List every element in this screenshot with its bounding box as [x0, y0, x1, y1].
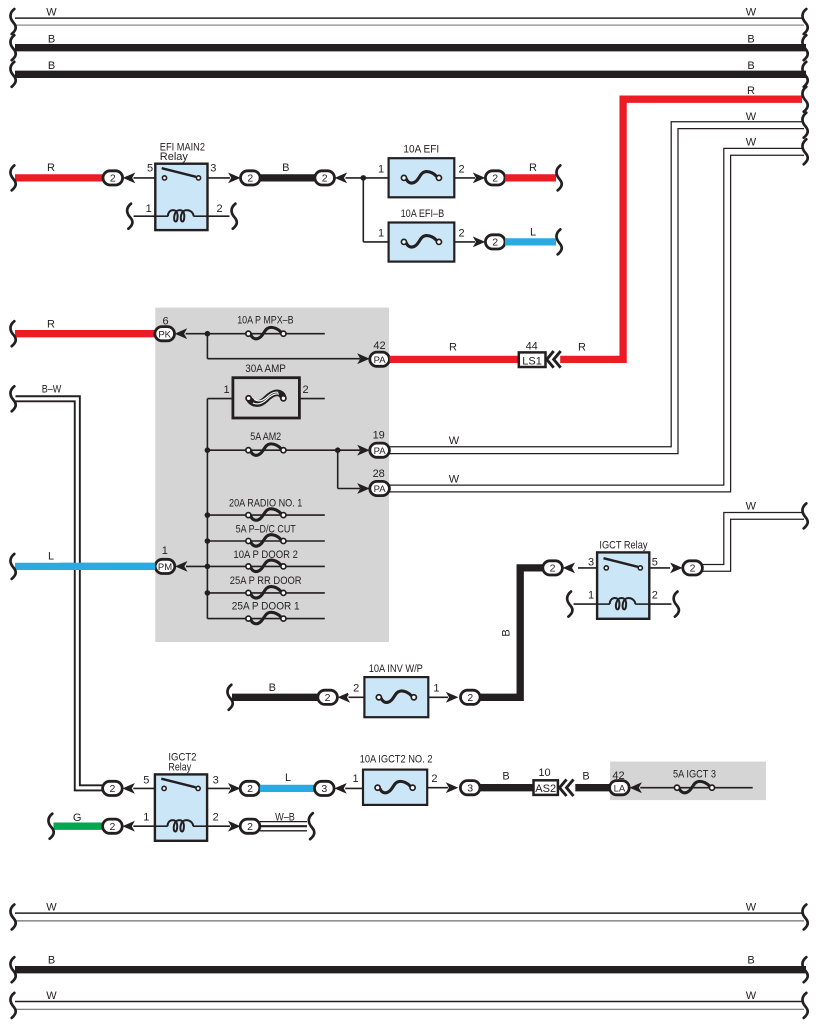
svg-text:3: 3 — [213, 774, 219, 786]
svg-text:5: 5 — [652, 557, 658, 569]
svg-text:2: 2 — [353, 683, 359, 695]
svg-text:5: 5 — [147, 162, 153, 174]
svg-text:5A IGCT 3: 5A IGCT 3 — [673, 769, 716, 781]
svg-text:B: B — [747, 60, 754, 72]
svg-text:LA: LA — [614, 783, 626, 794]
svg-text:PA: PA — [374, 484, 387, 495]
svg-text:1: 1 — [224, 384, 230, 396]
svg-text:2: 2 — [431, 773, 437, 785]
svg-text:2: 2 — [492, 237, 498, 249]
svg-text:3: 3 — [210, 162, 216, 174]
svg-text:1: 1 — [352, 773, 358, 785]
svg-text:2: 2 — [322, 173, 328, 185]
svg-text:44: 44 — [526, 340, 538, 352]
svg-text:2: 2 — [690, 563, 696, 575]
svg-text:W: W — [746, 500, 757, 512]
svg-text:W: W — [746, 990, 757, 1002]
svg-text:42: 42 — [612, 770, 624, 782]
svg-text:10A EFI: 10A EFI — [403, 143, 439, 155]
svg-text:IGCT Relay: IGCT Relay — [599, 540, 648, 552]
svg-text:W: W — [746, 902, 757, 914]
svg-text:W: W — [46, 902, 57, 914]
svg-text:2: 2 — [247, 821, 253, 833]
svg-text:10A P DOOR 2: 10A P DOOR 2 — [233, 549, 298, 561]
svg-text:2: 2 — [652, 590, 658, 602]
svg-text:PA: PA — [374, 355, 387, 366]
svg-text:W: W — [746, 111, 757, 123]
svg-text:L: L — [285, 772, 291, 784]
svg-text:10A P MPX–B: 10A P MPX–B — [237, 315, 293, 327]
svg-text:PK: PK — [158, 329, 171, 340]
svg-text:B: B — [48, 954, 55, 966]
svg-text:2: 2 — [467, 692, 473, 704]
svg-text:L: L — [530, 226, 536, 238]
svg-text:30A AMP: 30A AMP — [245, 363, 286, 375]
svg-text:5: 5 — [143, 774, 149, 786]
svg-text:10A INV W/P: 10A INV W/P — [369, 663, 423, 675]
svg-text:5A P–D/C CUT: 5A P–D/C CUT — [236, 523, 296, 535]
svg-text:R: R — [47, 318, 55, 330]
svg-text:AS2: AS2 — [535, 783, 556, 795]
svg-text:1: 1 — [378, 227, 384, 239]
svg-text:B: B — [282, 162, 289, 174]
svg-text:2: 2 — [247, 783, 253, 795]
svg-text:2: 2 — [492, 173, 498, 185]
svg-text:W–B: W–B — [275, 812, 295, 824]
svg-text:R: R — [578, 342, 586, 354]
svg-text:42: 42 — [373, 340, 385, 352]
svg-text:19: 19 — [373, 430, 385, 442]
svg-text:1: 1 — [433, 683, 439, 695]
svg-text:2: 2 — [325, 692, 331, 704]
svg-text:2: 2 — [109, 783, 115, 795]
svg-text:1: 1 — [162, 545, 168, 557]
svg-text:W: W — [746, 137, 757, 149]
svg-text:R: R — [449, 342, 457, 354]
svg-text:PA: PA — [374, 446, 387, 457]
svg-text:2: 2 — [550, 563, 556, 575]
svg-text:B: B — [48, 33, 55, 45]
svg-text:6: 6 — [162, 315, 168, 327]
svg-text:W: W — [46, 6, 57, 18]
svg-text:G: G — [73, 812, 82, 824]
svg-text:1: 1 — [588, 590, 594, 602]
svg-text:B: B — [747, 33, 754, 45]
svg-text:25A P RR DOOR: 25A P RR DOOR — [230, 575, 302, 587]
svg-text:3: 3 — [467, 782, 473, 794]
svg-text:25A P DOOR 1: 25A P DOOR 1 — [232, 601, 300, 613]
svg-text:3: 3 — [588, 557, 594, 569]
svg-text:2: 2 — [216, 203, 222, 215]
svg-text:LS1: LS1 — [522, 355, 542, 367]
svg-text:B: B — [582, 770, 589, 782]
svg-text:3: 3 — [321, 783, 327, 795]
svg-text:1: 1 — [378, 163, 384, 175]
svg-text:PM: PM — [158, 562, 172, 573]
svg-text:L: L — [48, 550, 54, 562]
svg-text:2: 2 — [109, 821, 115, 833]
svg-text:B: B — [500, 629, 512, 636]
svg-text:W: W — [746, 6, 757, 18]
svg-text:2: 2 — [458, 227, 464, 239]
svg-text:5A AM2: 5A AM2 — [250, 431, 281, 443]
svg-text:Relay: Relay — [168, 761, 191, 773]
svg-text:Relay: Relay — [160, 151, 189, 163]
svg-text:2: 2 — [213, 811, 219, 823]
svg-text:B: B — [48, 60, 55, 72]
svg-text:2: 2 — [247, 173, 253, 185]
svg-text:10A IGCT2 NO. 2: 10A IGCT2 NO. 2 — [360, 753, 433, 765]
svg-text:1: 1 — [143, 811, 149, 823]
svg-text:R: R — [747, 85, 755, 97]
svg-text:B: B — [269, 682, 276, 694]
svg-text:10: 10 — [538, 767, 550, 779]
svg-text:W: W — [449, 435, 460, 447]
svg-text:W: W — [46, 990, 57, 1002]
svg-text:2: 2 — [303, 384, 309, 396]
svg-text:W: W — [449, 474, 460, 486]
svg-text:B: B — [747, 954, 754, 966]
svg-text:1: 1 — [146, 203, 152, 215]
svg-text:R: R — [47, 162, 55, 174]
svg-text:B–W: B–W — [42, 383, 62, 395]
svg-text:2: 2 — [458, 163, 464, 175]
svg-text:R: R — [529, 162, 537, 174]
svg-text:28: 28 — [373, 468, 385, 480]
svg-text:20A RADIO NO. 1: 20A RADIO NO. 1 — [229, 497, 302, 509]
svg-text:2: 2 — [110, 173, 116, 185]
svg-text:10A EFI–B: 10A EFI–B — [401, 208, 445, 220]
svg-text:B: B — [502, 770, 509, 782]
